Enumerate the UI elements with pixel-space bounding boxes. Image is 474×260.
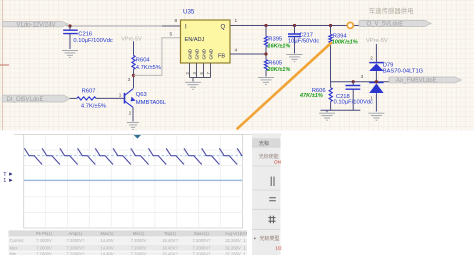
wire rail to R394 xyxy=(330,26,332,35)
svg-text:光标类型: 光标类型 xyxy=(260,235,280,242)
svg-text:3: 3 xyxy=(361,74,364,79)
svg-text:100K/±1%: 100K/±1% xyxy=(332,40,358,46)
pin 2 D79 xyxy=(370,55,373,60)
port VLdo-12V/24V xyxy=(2,21,68,28)
text 车速传感器供电 xyxy=(369,6,414,15)
junction C217 xyxy=(293,24,296,27)
wire R395 to R605 xyxy=(265,47,267,60)
svg-text:C216: C216 xyxy=(78,31,92,37)
svg-text:4.7K/±5%: 4.7K/±5% xyxy=(81,104,106,110)
pin 8 U35 I xyxy=(162,18,181,26)
wire bottom rail R606/C218 xyxy=(321,110,361,112)
svg-text:R395: R395 xyxy=(268,37,282,43)
svg-text:7.2000V?: 7.2000V? xyxy=(67,251,86,255)
svg-text:Current: Current xyxy=(10,238,25,243)
svg-text:Base(1): Base(1) xyxy=(194,231,209,236)
svg-text:Top(1): Top(1) xyxy=(164,231,176,236)
pin 5 U35 EN/ADJ xyxy=(170,32,173,38)
ground U35 xyxy=(185,82,201,89)
oscilloscope window frame xyxy=(14,134,282,255)
svg-text:光标: 光标 xyxy=(259,139,269,147)
svg-text:32.260V: 32.260V xyxy=(225,245,241,250)
svg-text:Max: Max xyxy=(10,245,19,250)
svg-text:1: 1 xyxy=(119,92,122,97)
channel 2 trace line xyxy=(24,179,243,181)
svg-text:47K/±1%: 47K/±1% xyxy=(299,93,323,99)
wire EN/ADJ net (dimmed) xyxy=(134,38,181,76)
svg-text:10µF/50Vdc: 10µF/50Vdc xyxy=(288,39,319,45)
pin 3 D79 xyxy=(361,74,364,79)
svg-text:C217: C217 xyxy=(299,33,313,39)
junction FB xyxy=(264,52,267,55)
svg-text:7.2000V: 7.2000V xyxy=(131,245,147,250)
ground C216 xyxy=(62,51,78,58)
svg-text:7.2000V?: 7.2000V? xyxy=(193,245,212,250)
svg-text:Amp(1): Amp(1) xyxy=(69,231,83,236)
svg-text:7.2000V?: 7.2000V? xyxy=(67,245,86,250)
capacitor C217 xyxy=(288,26,319,54)
svg-text:GND: GND xyxy=(188,48,194,59)
annotation line to R394 xyxy=(238,43,332,129)
junction R395 xyxy=(264,24,267,27)
svg-text:7.2000V: 7.2000V xyxy=(131,251,147,255)
svg-text:4.7K/±5%: 4.7K/±5% xyxy=(136,65,161,71)
svg-text:车速传感器供电: 车速传感器供电 xyxy=(369,6,414,15)
svg-text:7.2000V: 7.2000V xyxy=(131,238,147,243)
resistor R605 xyxy=(264,60,290,73)
svg-text:14.40V: 14.40V xyxy=(100,238,113,243)
svg-text:Pk-Pk(1): Pk-Pk(1) xyxy=(36,231,53,236)
svg-text:16.40V?: 16.40V? xyxy=(162,238,178,243)
ground Q63 emitter xyxy=(127,123,139,130)
resistor R395 xyxy=(264,36,290,49)
junction D79 mid xyxy=(375,80,378,83)
svg-text:GND: GND xyxy=(202,48,208,59)
resistor R394 xyxy=(329,34,358,46)
junction C218 top xyxy=(352,80,355,83)
ground R605 xyxy=(258,78,274,85)
resistor R606 xyxy=(299,82,332,111)
svg-text:7.2000V?: 7.2000V? xyxy=(193,238,212,243)
trigger level marker T xyxy=(3,172,12,178)
wire rail to R395 xyxy=(265,26,267,37)
svg-text:ON: ON xyxy=(274,160,281,165)
resistor R604 xyxy=(132,55,161,70)
svg-text:7.2000V: 7.2000V xyxy=(36,251,52,255)
svg-text:32.260V: 32.260V xyxy=(225,251,241,255)
cursor side panel xyxy=(252,133,282,255)
pin 1 U35 Q xyxy=(230,18,240,26)
svg-text:Min(1): Min(1) xyxy=(133,231,145,236)
wire R604 to Q63 collector xyxy=(133,69,135,88)
svg-text:VPre-5V: VPre-5V xyxy=(366,38,388,44)
port O_V_5VLdoE xyxy=(359,20,431,27)
wire R605 to ground xyxy=(265,70,267,77)
svg-text:VLdo-12V/24V: VLdo-12V/24V xyxy=(17,22,56,28)
sheet border xyxy=(0,0,9,130)
capacitor C216 xyxy=(63,26,113,49)
svg-text:Min: Min xyxy=(10,251,17,255)
svg-text:Q63: Q63 xyxy=(136,92,147,98)
svg-text:R605: R605 xyxy=(268,60,282,66)
junction R604/EN wire xyxy=(132,74,135,77)
pins 2 3 6 7 U35 GND xyxy=(185,63,211,82)
plot area grid xyxy=(24,134,243,228)
resistor R607 xyxy=(77,89,106,110)
svg-text:EN/ADJ: EN/ADJ xyxy=(185,37,205,43)
svg-text:3: 3 xyxy=(128,77,131,82)
port DI_OI5VLdoE xyxy=(2,95,70,103)
svg-text:VPre-5V: VPre-5V xyxy=(121,36,142,42)
capacitor C218 xyxy=(334,82,374,111)
svg-text:2: 2 xyxy=(370,55,373,60)
svg-text:7.2000V: 7.2000V xyxy=(36,245,52,250)
measurement table xyxy=(9,230,253,256)
wire port to R607 xyxy=(70,97,77,99)
svg-text:7.2000V?: 7.2000V? xyxy=(67,238,86,243)
svg-text:MMBTA06L: MMBTA06L xyxy=(136,100,167,106)
wire VPre-5V to R604 xyxy=(133,41,135,55)
svg-text:▸: ▸ xyxy=(254,236,256,241)
svg-text:1: 1 xyxy=(235,18,238,24)
svg-text:7.2000V: 7.2000V xyxy=(36,238,52,243)
net label VPre-5V (left) xyxy=(121,36,142,42)
svg-text:T: T xyxy=(3,172,7,178)
svg-text:14.40V: 14.40V xyxy=(100,245,113,250)
trigger marker xyxy=(134,135,141,139)
wire VLdo net xyxy=(66,25,181,27)
svg-text:2: 2 xyxy=(129,111,132,116)
svg-text:8: 8 xyxy=(175,18,178,24)
diode D79 (dual BAS70-04) xyxy=(369,62,423,111)
ground C217 xyxy=(287,55,303,62)
wire Q63 emitter to ground xyxy=(132,107,134,121)
svg-text:7.2000V?: 7.2000V? xyxy=(193,251,212,255)
svg-text:0.10µF/100Vdc: 0.10µF/100Vdc xyxy=(73,38,113,44)
svg-text:D79: D79 xyxy=(383,62,394,68)
svg-text:Q: Q xyxy=(221,25,226,31)
svg-text:4: 4 xyxy=(235,48,238,54)
waveform trace CH1 xyxy=(24,148,255,164)
pin 4 U35 FB xyxy=(230,48,266,55)
wire VPre-5V to D79 xyxy=(375,44,377,62)
svg-text:GND: GND xyxy=(209,48,215,59)
svg-text:32.260V: 32.260V xyxy=(225,238,241,243)
wire Q output net xyxy=(240,25,359,27)
wire R607 to Q63 base xyxy=(96,97,125,99)
svg-text:1: 1 xyxy=(3,178,6,184)
svg-text:GND: GND xyxy=(195,48,201,59)
svg-text:16.40V?: 16.40V? xyxy=(162,251,178,255)
pin 1 Q63 base xyxy=(119,92,122,97)
svg-text:16.40V?: 16.40V? xyxy=(162,245,178,250)
net label VPre-5V (right) xyxy=(366,38,388,44)
svg-text:Max(1): Max(1) xyxy=(100,231,114,236)
svg-text:20K/±1%: 20K/±1% xyxy=(266,67,290,73)
svg-text:R604: R604 xyxy=(136,58,151,64)
pin 2 Q63 emitter xyxy=(129,111,132,116)
cursor dashed line xyxy=(24,155,243,157)
pin 3 Q63 collector xyxy=(128,77,131,82)
junction R394 xyxy=(329,24,332,27)
channel 1 marker xyxy=(3,178,12,184)
svg-text:DI_OI5VLdoE: DI_OI5VLdoE xyxy=(7,97,44,103)
svg-text:0.10µF/100Vdc: 0.10µF/100Vdc xyxy=(334,99,374,105)
svg-text:O_V_5VLdoE: O_V_5VLdoE xyxy=(367,22,404,28)
svg-text:1/2: 1/2 xyxy=(276,246,283,251)
svg-text:FB: FB xyxy=(218,54,225,60)
transistor Q2 Q63 xyxy=(125,89,167,108)
svg-text:R607: R607 xyxy=(82,89,96,95)
IC U35 body xyxy=(181,9,231,64)
junction C216/VLdo xyxy=(68,24,71,27)
svg-text:Ao_FM5VLdoE: Ao_FM5VLdoE xyxy=(396,78,437,84)
wire R394 to node xyxy=(331,44,390,82)
svg-text:5: 5 xyxy=(170,32,173,38)
svg-text:BAS70-04LT1G: BAS70-04LT1G xyxy=(383,69,424,75)
port Ao_FM5VLdoE xyxy=(389,77,461,84)
pin 1 D79 xyxy=(370,96,373,101)
svg-text:14.40V: 14.40V xyxy=(100,251,113,255)
svg-text:1: 1 xyxy=(370,96,373,101)
ground D79 xyxy=(368,113,384,120)
ground R606/C218 xyxy=(319,113,335,120)
svg-text:U35: U35 xyxy=(183,9,195,16)
probe marker circle xyxy=(347,22,353,28)
